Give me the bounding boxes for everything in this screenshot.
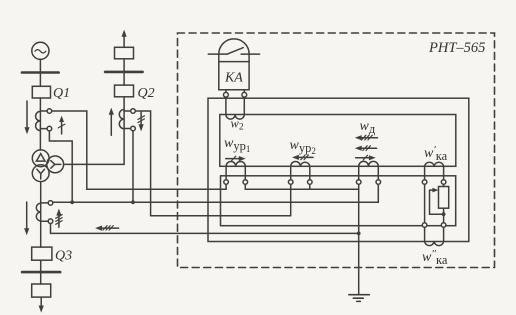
wire CT1 bottom terminal to common node xyxy=(49,131,72,201)
CT TA2 (two bumps on branch 2) xyxy=(119,110,124,129)
svg-text:Q1: Q1 xyxy=(53,86,70,101)
w'ka stubs to terminals xyxy=(424,166,426,179)
stub wur1 right terminal to W2 xyxy=(244,184,246,189)
stub wur1 left terminal to W1 xyxy=(225,184,227,189)
wires lower terminals to w''ka xyxy=(424,227,426,241)
arrow i1 secondary (up, 1 hash) xyxy=(58,116,65,134)
saturating transformer core box (box2) xyxy=(220,115,456,167)
arrow wd-2 (left, 2 hashes) xyxy=(355,146,377,151)
wire w'ka right terminal to resistor xyxy=(443,184,445,186)
common wire W3 (CT3 top to wd right) xyxy=(53,201,379,203)
lower terminal circles of ka winding circuit xyxy=(422,223,427,228)
branch 2 top load rect xyxy=(115,47,134,59)
winding wd xyxy=(359,161,379,166)
wire wd left terminal down to ground xyxy=(358,184,360,294)
transformer T1 winding delta (top circle) xyxy=(32,150,49,167)
svg-text:wур1: wур1 xyxy=(224,136,250,154)
breaker Q1 xyxy=(32,86,50,98)
wire generator to busbar 1 xyxy=(39,59,41,72)
junction dot wiper to resistor bottom xyxy=(442,212,446,216)
svg-text:w′ка: w′ка xyxy=(424,144,448,163)
wire W4 (CT2 top to wur2 left) xyxy=(151,215,291,217)
resistor R xyxy=(439,187,449,209)
arrow i3 secondary (up, 3 hashes) xyxy=(56,209,63,228)
wire CT2 bottom terminal to common node xyxy=(132,131,134,201)
winding w'ka xyxy=(425,162,444,166)
branch 3 bottom arrow (down) xyxy=(39,297,44,313)
stub wur2 right terminal to W2 xyxy=(309,184,311,189)
wire rect to busbar 2 xyxy=(123,59,125,72)
arrow wur1 (right, 1 hash) xyxy=(226,156,246,161)
terminal circles row (taps) xyxy=(224,180,446,185)
breaker Q2 xyxy=(115,85,134,97)
wire W5 (CT3 bottom to ground node) xyxy=(51,224,359,234)
branch 2 top arrow (up) xyxy=(122,30,127,48)
wire Q1 to transformer (branch 1 main) xyxy=(39,98,41,150)
busbar 3 xyxy=(22,271,60,274)
transformer T1 winding Y (right circle) xyxy=(47,156,64,173)
ground symbol xyxy=(349,295,369,302)
wire busbar 2 to Q2 xyxy=(123,72,125,85)
arrow wur2 (left, 2 hashes) xyxy=(292,155,313,160)
winding wur2 xyxy=(291,162,310,167)
arrow wd-3 (right, 1 hash) xyxy=(356,155,376,160)
wire resistor bottom to lower terminal xyxy=(443,208,445,223)
branch 3 load rect xyxy=(32,284,51,297)
junction dot CT2 return on common wire xyxy=(131,200,135,204)
dashed enclosure RNT-565 xyxy=(178,33,495,268)
stub wd right terminal to W3 xyxy=(377,184,379,202)
CT TA1 (two bumps on branch 1) xyxy=(36,111,41,130)
svg-text:Q2: Q2 xyxy=(138,86,155,101)
wire CT1 top to wur1 left terminal (W1) xyxy=(87,188,226,190)
wire CT1 top terminal to relay (goes right then down) xyxy=(52,111,87,189)
arrow wd-1 (left, 3 hashes) xyxy=(355,135,378,140)
winding w''ka (bumps below outer box bottom edge) xyxy=(425,242,444,246)
arrow I2 primary current (up) xyxy=(109,108,114,136)
CT TA2 terminal stubs and circles xyxy=(124,110,131,112)
wire transformer right winding to branch 2 xyxy=(64,97,125,165)
outer solid box of relay xyxy=(208,98,469,241)
svg-text:w″ка: w″ка xyxy=(422,248,448,267)
breaker Q3 xyxy=(32,247,52,260)
wire Q3 to busbar 3 xyxy=(40,260,42,284)
svg-text:РНТ–565: РНТ–565 xyxy=(428,40,485,56)
tap board box (box3) xyxy=(221,176,456,226)
wur1 stubs to terminals xyxy=(225,166,227,179)
transformer T1 winding Y (bottom circle) xyxy=(32,165,49,182)
CT TA1 terminal stubs and circles xyxy=(40,110,47,112)
relay KA body (dome + rect) xyxy=(219,39,249,90)
relay KA contact symbol xyxy=(208,48,259,55)
arrow on W5 (left, 3 hashes) xyxy=(95,226,119,231)
arrow I3 primary current (down) xyxy=(24,202,29,235)
wires KA terminals to w2 xyxy=(225,97,227,114)
junction dot W5 / ground wire xyxy=(357,232,361,236)
wire transformer bottom winding down to CT3 xyxy=(40,182,42,248)
resistor wiper arrow xyxy=(430,188,442,214)
wire CT2 top terminal to wur2 left (right, down, right) xyxy=(135,111,150,216)
arrow i2 secondary (down, 2 hashes) xyxy=(138,112,145,131)
svg-text:Q3: Q3 xyxy=(55,249,72,264)
busbar 2 xyxy=(105,71,143,74)
wd stubs to terminals xyxy=(358,166,360,179)
generator G (AC source circle) xyxy=(32,42,49,59)
wire wur2 left terminal down to W4 xyxy=(290,184,292,216)
CT TA3 terminal stubs and circles xyxy=(41,202,49,204)
KA terminals xyxy=(225,90,227,93)
junction dot CT1 return on common wire xyxy=(70,200,74,204)
svg-text:wур2: wур2 xyxy=(290,138,316,156)
wire busbar 1 to Q1 xyxy=(39,73,41,87)
svg-text:КА: КА xyxy=(224,70,243,85)
CT TA3 (two bumps on branch 3) xyxy=(36,203,40,221)
busbar 1 xyxy=(22,71,59,74)
wur2 stubs to terminals xyxy=(290,166,292,179)
winding wur1 (bumps above box2 bottom edge) xyxy=(226,161,245,166)
wire w'ka left terminal down xyxy=(424,184,426,222)
arrow I1 primary current (down) xyxy=(24,101,29,134)
wire W2 (wur1 right - wur2 right - wd left) xyxy=(245,188,358,190)
svg-text:wд: wд xyxy=(360,119,376,136)
winding w2 (bumps below box2 top edge) xyxy=(226,115,244,120)
